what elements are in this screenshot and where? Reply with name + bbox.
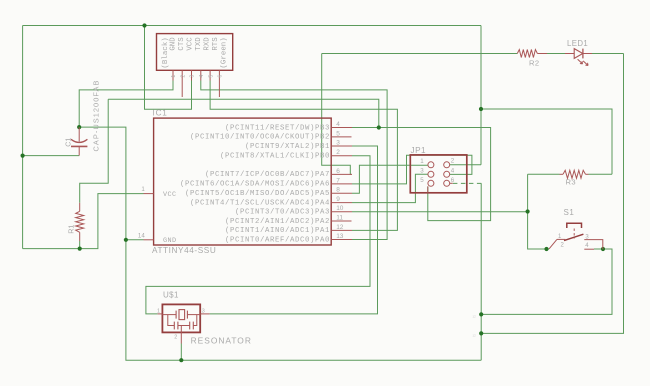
wire LED run to R2 bbox=[322, 53, 518, 55]
svg-text:2: 2 bbox=[336, 149, 340, 156]
wire GND to S1 right bbox=[481, 249, 612, 314]
resistor R1 zigzag bbox=[76, 211, 84, 232]
wire LED1 cathode lead right bbox=[592, 53, 624, 55]
svg-text:ATTINY44-SSU: ATTINY44-SSU bbox=[152, 246, 216, 255]
junction S1 right bbox=[601, 247, 605, 251]
capacitor C1 straight plate bbox=[71, 145, 87, 147]
svg-text:RESONATOR: RESONATOR bbox=[191, 336, 252, 346]
svg-text:(PCINT2/AIN1/ADC2)PA2: (PCINT2/AIN1/ADC2)PA2 bbox=[225, 218, 330, 226]
svg-text:5: 5 bbox=[208, 75, 214, 78]
S1 plunger bracket bbox=[567, 223, 582, 228]
FTDI pin 2 CTS bbox=[181, 70, 183, 97]
svg-text:12: 12 bbox=[336, 224, 344, 231]
svg-text:LED1: LED1 bbox=[567, 39, 588, 48]
IC1 pin 7 line bbox=[331, 183, 352, 185]
resonator pin1 stub bbox=[158, 313, 163, 315]
svg-text:9: 9 bbox=[336, 196, 340, 203]
svg-text:3: 3 bbox=[336, 139, 340, 146]
svg-text:U$1: U$1 bbox=[163, 291, 179, 300]
wire MOSI PA6 to JP1 pin4 bbox=[352, 155, 472, 184]
svg-text:S1: S1 bbox=[564, 208, 575, 217]
wire PA7 jog to LED run bbox=[322, 54, 352, 175]
capacitor C1 curved plate bbox=[71, 139, 87, 142]
wire R3 left lead bbox=[528, 173, 560, 175]
svg-text:1: 1 bbox=[171, 75, 177, 78]
resonator pin3 stub bbox=[200, 313, 209, 315]
svg-text:8: 8 bbox=[336, 187, 340, 194]
IC1 pin 9 line bbox=[331, 202, 352, 204]
wire VCC bottom run to R1/IC1 bbox=[23, 194, 144, 249]
LED1 triangle bbox=[574, 49, 583, 59]
svg-text:(PCINT4/T1/SCL/USCK/ADC4)PA4: (PCINT4/T1/SCL/USCK/ADC4)PA4 bbox=[190, 199, 330, 207]
LED1 anode lead bbox=[565, 53, 574, 55]
IC1 pin 1 VCC line bbox=[144, 193, 154, 195]
svg-text:4: 4 bbox=[451, 167, 455, 174]
svg-text:6: 6 bbox=[218, 75, 224, 78]
svg-text:(PCINT0/AREF/ADC0)PA0: (PCINT0/AREF/ADC0)PA0 bbox=[225, 236, 330, 244]
svg-text:R2: R2 bbox=[529, 59, 540, 68]
svg-text:JP1: JP1 bbox=[411, 146, 427, 155]
IC1 pin 4 line bbox=[331, 127, 352, 129]
junction VCC top rail bbox=[142, 23, 146, 27]
junction R1 bottom on VCC bbox=[78, 247, 82, 251]
wire FTDI TXD to PA0 bbox=[201, 81, 387, 240]
wire SCK PA4 to JP1 pin3 bbox=[352, 174, 428, 202]
svg-text:CAP-US1200FAB: CAP-US1200FAB bbox=[92, 80, 101, 152]
svg-text:(PCINT7/ICP/OC0B/ADC7)PA7: (PCINT7/ICP/OC0B/ADC7)PA7 bbox=[205, 171, 330, 179]
resonator cap2 right plate bbox=[192, 322, 194, 330]
wire RESET horizontal bbox=[108, 99, 379, 127]
wire VCC top rail bbox=[23, 25, 481, 27]
resonator pin2 stem bbox=[180, 326, 182, 344]
LED1 cathode lead bbox=[583, 53, 592, 55]
svg-text:VCC: VCC bbox=[163, 191, 176, 199]
capacitor C1 bottom lead bbox=[78, 146, 80, 155]
resonator crystal left lead bbox=[162, 314, 176, 316]
wire VCC left rail bbox=[22, 26, 24, 249]
wire RESET into JP1 pin5 bbox=[427, 186, 429, 192]
wire PB0 to resonator pin1 bbox=[146, 156, 370, 314]
svg-text:(Green): (Green) bbox=[220, 37, 228, 68]
S1 lever bbox=[564, 234, 583, 240]
svg-text:(PCINT5/OC1B/MISO/DO/ADC5)PA5: (PCINT5/OC1B/MISO/DO/ADC5)PA5 bbox=[185, 190, 330, 198]
svg-text:5: 5 bbox=[336, 130, 340, 137]
JP1 connector box bbox=[410, 155, 467, 193]
FTDI pin 4 TXD bbox=[200, 70, 202, 80]
resonator crystal body bbox=[179, 310, 185, 320]
resonator cap1 riser bbox=[168, 315, 175, 326]
wire VCC down right side bbox=[480, 26, 482, 165]
S1 pin4 stub bbox=[584, 248, 594, 250]
wire GND resonator stem bbox=[180, 344, 182, 361]
wire VCC branch to C1 bottom bbox=[23, 155, 80, 157]
IC1 ATTINY44-SSU box bbox=[154, 118, 332, 245]
wire GND to LED cathode bbox=[481, 54, 623, 334]
FTDI pin 6 RTS bbox=[218, 70, 220, 97]
resonator crystal left plate bbox=[175, 311, 177, 319]
svg-text:3: 3 bbox=[190, 75, 196, 78]
svg-text:R1: R1 bbox=[67, 225, 76, 234]
capacitor C1 top lead bbox=[78, 127, 80, 142]
wire VCC to JP1 pin2 bbox=[450, 164, 481, 166]
svg-text:7: 7 bbox=[336, 177, 340, 184]
resonator cap2 left plate bbox=[189, 322, 191, 330]
wire VCC to R3 pullup bbox=[481, 109, 612, 174]
svg-text:(PCINT8/XTAL1/CLKI)PB0: (PCINT8/XTAL1/CLKI)PB0 bbox=[220, 153, 330, 161]
svg-text:C1: C1 bbox=[64, 138, 73, 147]
svg-text:R3: R3 bbox=[566, 178, 577, 187]
svg-text:GND: GND bbox=[170, 37, 178, 51]
IC1 pin 12 line bbox=[331, 229, 352, 231]
FTDI pin 1 GND bbox=[172, 70, 174, 80]
LED1 arrow 2 bbox=[583, 61, 588, 66]
IC1 pin 14 GND line bbox=[144, 239, 154, 241]
JP1 pad circle pin 5 bbox=[428, 180, 434, 186]
svg-text:(PCINT11/RESET/DW)PB3: (PCINT11/RESET/DW)PB3 bbox=[225, 124, 330, 132]
svg-text:11: 11 bbox=[336, 214, 343, 221]
IC1 pin 6 line bbox=[331, 173, 352, 175]
junction S1 left bbox=[544, 247, 548, 251]
JP1 pad circle pin 6 bbox=[444, 180, 450, 186]
wire GND dashed to JP1 pin6 bbox=[453, 182, 482, 184]
svg-text:₁₂: ₁₂ bbox=[473, 313, 477, 318]
LED1 arrow 1 bbox=[578, 59, 583, 64]
svg-text:(PCINT3/T0/ADC3)PA3: (PCINT3/T0/ADC3)PA3 bbox=[235, 209, 330, 217]
svg-text:2: 2 bbox=[180, 75, 186, 78]
junction GND resonator bbox=[179, 358, 183, 362]
S1 pin3 elbow bbox=[584, 240, 603, 250]
wire GND from C1 top to IC1 GND bbox=[79, 127, 143, 240]
resistor R1 top lead bbox=[79, 203, 81, 212]
S1 pin2 diagonal bbox=[549, 239, 557, 249]
IC1 pin 3 line bbox=[331, 145, 352, 147]
svg-text:2: 2 bbox=[174, 335, 177, 341]
junction GND at C1 top bbox=[77, 125, 81, 129]
JP1 pad circle pin 2 bbox=[444, 162, 450, 168]
svg-text:RXD: RXD bbox=[204, 37, 212, 51]
IC1 pin 10 line bbox=[331, 211, 352, 213]
svg-text:4: 4 bbox=[336, 121, 340, 128]
svg-text:IC1: IC1 bbox=[153, 109, 168, 118]
FTDI pin 3 VCC bbox=[191, 70, 193, 80]
svg-text:TXD: TXD bbox=[195, 37, 203, 51]
wire RESET from IC1 PB3 bbox=[352, 128, 491, 221]
resistor R3 zigzag bbox=[563, 170, 586, 178]
FTDI pin 5 RXD bbox=[209, 70, 211, 80]
IC1 pin 8 line bbox=[331, 192, 352, 194]
wire GND from FTDI GND pin bbox=[79, 81, 173, 128]
resonator cap1 left plate bbox=[173, 322, 175, 330]
svg-text:VCC: VCC bbox=[187, 37, 195, 51]
resonator crystal right lead bbox=[187, 314, 200, 316]
svg-text:CTS: CTS bbox=[178, 37, 186, 51]
resistor R3 left lead bbox=[560, 173, 564, 175]
resonator crystal right plate bbox=[186, 311, 188, 319]
junction RESET at PB3 bbox=[377, 125, 381, 129]
wire PA3 to button node bbox=[352, 211, 528, 213]
JP1 pad circle pin 3 bbox=[428, 171, 434, 177]
FTDI header box bbox=[157, 34, 233, 71]
junction button node R3/PA3 bbox=[526, 209, 530, 213]
wire GND riser right bbox=[480, 183, 482, 360]
IC1 pin 13 line bbox=[331, 239, 352, 241]
wire R2 to LED1 anode mid bbox=[547, 53, 565, 55]
resonator cap2 riser bbox=[193, 315, 197, 326]
JP1 pin5 red stub bbox=[427, 186, 429, 192]
svg-text:(PCINT10/INT0/OC0A/CKOUT)PB2: (PCINT10/INT0/OC0A/CKOUT)PB2 bbox=[190, 134, 330, 142]
resonator center link bbox=[178, 325, 190, 327]
S1 pin1 stub bbox=[557, 238, 566, 240]
resonator cap1 right plate bbox=[177, 322, 179, 330]
wire R3 left leg down to S1 bbox=[528, 174, 549, 249]
resistor R2 zigzag bbox=[517, 50, 537, 58]
svg-text:(PCINT9/XTAL2)PB1: (PCINT9/XTAL2)PB1 bbox=[245, 143, 330, 151]
junction VCC C1 branch bbox=[21, 154, 25, 158]
wire R1 bottom to VCC rail bbox=[79, 241, 81, 249]
wire FTDI RXD to PA1 bbox=[210, 81, 397, 231]
svg-text:RTS: RTS bbox=[212, 37, 220, 51]
junction GND S1 branch bbox=[479, 312, 483, 316]
wire VCC to FTDI VCC pin jog bbox=[145, 26, 192, 110]
svg-text:3: 3 bbox=[420, 168, 424, 175]
svg-text:3: 3 bbox=[202, 308, 205, 314]
svg-text:5: 5 bbox=[420, 177, 424, 184]
LED1 cathode bar bbox=[582, 49, 584, 59]
svg-text:(PCINT6/OC1A/SDA/MOSI/ADC6)PA6: (PCINT6/OC1A/SDA/MOSI/ADC6)PA6 bbox=[180, 181, 330, 189]
svg-text:(PCINT1/AIN0/ADC1)PA1: (PCINT1/AIN0/ADC1)PA1 bbox=[225, 227, 330, 235]
junction GND LED branch bbox=[479, 331, 483, 335]
junction VCC right bbox=[479, 107, 483, 111]
resistor R2 right lead bbox=[537, 53, 547, 55]
svg-text:1: 1 bbox=[141, 186, 145, 193]
wire MISO PA5 to JP1 pin1 bbox=[352, 165, 428, 193]
wire PB1 to resonator pin3 bbox=[210, 146, 378, 314]
IC1 pin 11 line bbox=[331, 220, 351, 222]
resonator U$1 box bbox=[162, 304, 200, 332]
IC1 pin 5 line bbox=[331, 136, 351, 138]
svg-text:1: 1 bbox=[157, 308, 160, 314]
wire GND down to bottom rail bbox=[126, 240, 481, 360]
wire R3 right lead bbox=[589, 173, 613, 175]
S1 plunger stem dashed bbox=[573, 229, 575, 239]
JP1 pin6 red stub bbox=[450, 182, 453, 184]
svg-text:2: 2 bbox=[451, 158, 455, 165]
resistor R1 bottom lead bbox=[79, 232, 81, 241]
svg-text:1: 1 bbox=[420, 158, 424, 165]
svg-text:10: 10 bbox=[336, 205, 344, 212]
wire RESET to R1 top bbox=[80, 99, 109, 203]
JP1 pad circle pin 1 bbox=[428, 162, 434, 168]
svg-text:GND: GND bbox=[163, 237, 176, 245]
IC1 pin 2 line bbox=[331, 155, 352, 157]
svg-text:₁₂: ₁₂ bbox=[473, 332, 477, 337]
svg-text:14: 14 bbox=[138, 233, 145, 240]
JP1 pad circle pin 4 bbox=[444, 171, 450, 177]
resistor R3 right lead bbox=[586, 173, 589, 175]
svg-text:6: 6 bbox=[336, 168, 340, 175]
junction GND at IC1 pin14 bbox=[124, 238, 128, 242]
svg-text:13: 13 bbox=[336, 233, 344, 240]
svg-text:4: 4 bbox=[199, 75, 205, 78]
